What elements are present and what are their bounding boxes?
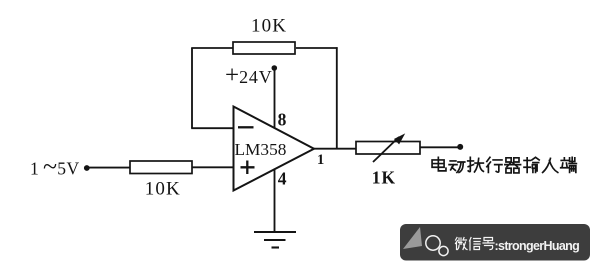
svg-text:10K: 10K bbox=[145, 179, 181, 200]
watermark: fold arrow icon bbox=[403, 227, 422, 249]
svg-text:~: ~ bbox=[43, 152, 57, 181]
wire: feedback left vertical bbox=[191, 48, 193, 128]
op-amp U1 inverting input minus sign bbox=[238, 126, 254, 128]
glyph 电 bbox=[432, 157, 446, 171]
wire: R1 to non-inverting input bbox=[192, 166, 234, 168]
wire: RV1 to output terminal bbox=[420, 146, 458, 148]
svg-text:8: 8 bbox=[278, 110, 287, 130]
potentiometer RV1 1K body bbox=[356, 142, 420, 155]
glyph 端 bbox=[561, 157, 577, 172]
watermark: text 微信号 strokes bbox=[456, 238, 495, 251]
svg-text:5V: 5V bbox=[57, 159, 79, 179]
wire: op-amp output to junction bbox=[313, 148, 356, 150]
svg-text:1: 1 bbox=[317, 152, 324, 168]
svg-text:10K: 10K bbox=[251, 16, 287, 37]
glyph 器 bbox=[505, 158, 521, 173]
op-amp U1 non-inverting input plus sign bbox=[241, 161, 255, 175]
node: output terminal dot bbox=[457, 144, 463, 150]
wire: feedback to inverting input bbox=[191, 127, 233, 129]
glyph 微 bbox=[456, 238, 468, 250]
svg-text::strongerHuang: :strongerHuang bbox=[495, 239, 580, 253]
node: +24V supply dot bbox=[272, 65, 278, 71]
glyph 输 bbox=[524, 157, 539, 172]
op-amp U1 LM358 body bbox=[234, 107, 315, 191]
glyph 行 bbox=[487, 157, 502, 172]
glyph 信 bbox=[470, 238, 481, 251]
resistor Rf 10K feedback body bbox=[233, 42, 295, 54]
glyph 动 bbox=[449, 161, 465, 172]
watermark: dark badge background bbox=[400, 224, 590, 261]
ground symbol bbox=[254, 232, 296, 248]
svg-text:LM358: LM358 bbox=[235, 140, 287, 159]
label: output terminal 电动执行器输入端 (hand-drawn CJK strokes) bbox=[432, 157, 576, 173]
wire: feedback top-left horizontal bbox=[191, 47, 233, 49]
resistor R1 10K input body bbox=[130, 161, 192, 174]
wire: feedback top-right horizontal bbox=[296, 47, 338, 49]
glyph 号 bbox=[483, 238, 494, 250]
watermark: WeChat icon bbox=[426, 236, 448, 256]
node: input terminal dot bbox=[84, 165, 90, 171]
wire: feedback right vertical to output node bbox=[336, 47, 338, 149]
potentiometer RV1 wiper arrow bbox=[373, 133, 405, 162]
glyph 执 bbox=[468, 157, 484, 172]
svg-text:+24V: +24V bbox=[225, 62, 273, 89]
svg-text:1: 1 bbox=[30, 159, 39, 179]
svg-text:4: 4 bbox=[278, 169, 287, 189]
wire: +24V to op-amp pin 8 bbox=[274, 68, 276, 129]
wire: pin 4 to ground bbox=[274, 169, 276, 233]
svg-text:1K: 1K bbox=[372, 168, 396, 188]
wire: input terminal to R1 bbox=[87, 167, 130, 169]
glyph 入 bbox=[543, 158, 558, 172]
